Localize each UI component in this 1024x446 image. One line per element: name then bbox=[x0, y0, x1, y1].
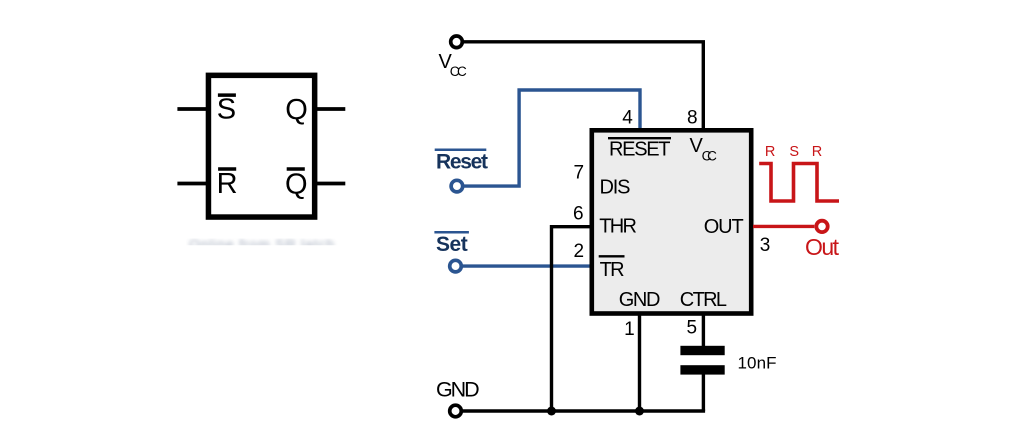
svg-text:THR: THR bbox=[599, 216, 637, 238]
wire Q output stub bbox=[315, 107, 345, 111]
pin label TR-bar bbox=[599, 256, 625, 281]
svg-text:8: 8 bbox=[687, 108, 698, 129]
svg-text:10nF: 10nF bbox=[738, 354, 777, 373]
wire Set to pin 2 (blue) bbox=[462, 264, 593, 267]
svg-text:Out: Out bbox=[805, 234, 840, 260]
pin label R-bar bbox=[217, 168, 238, 200]
wire THR to ground rail bbox=[552, 227, 593, 411]
svg-text:1: 1 bbox=[624, 319, 635, 340]
terminal GND bbox=[450, 405, 462, 417]
net label Vcc bbox=[439, 51, 468, 79]
junction at THR/rail bbox=[547, 407, 556, 416]
svg-text:7: 7 bbox=[574, 163, 585, 184]
pin label Vcc (inside) bbox=[690, 135, 718, 163]
svg-text:CC: CC bbox=[702, 149, 718, 164]
svg-text:OUT: OUT bbox=[704, 216, 744, 238]
wire GND pin to rail bbox=[638, 313, 641, 411]
svg-text:RESET: RESET bbox=[609, 138, 671, 160]
wire Vcc to pin 8 bbox=[463, 42, 703, 131]
svg-text:S: S bbox=[789, 144, 799, 160]
wire CTRL pin to capacitor bbox=[702, 313, 705, 347]
wire ground rail bbox=[462, 409, 706, 412]
svg-text:2: 2 bbox=[574, 241, 585, 262]
svg-text:TR: TR bbox=[600, 259, 625, 281]
IC U1 555 timer body bbox=[592, 130, 751, 313]
terminal Reset bbox=[451, 180, 463, 192]
svg-text:GND: GND bbox=[436, 377, 480, 401]
waveform trace (red) bbox=[759, 164, 839, 202]
wire Reset to pin 4 (blue) bbox=[463, 90, 640, 186]
svg-text:Q: Q bbox=[285, 94, 308, 126]
svg-text:4: 4 bbox=[622, 108, 633, 129]
waveform R S R labels (red) bbox=[765, 144, 822, 160]
capacitor C1 plates bbox=[680, 346, 724, 375]
svg-text:R: R bbox=[217, 168, 238, 200]
wire Qbar output stub bbox=[315, 182, 345, 186]
net label Reset-bar (blue) bbox=[435, 150, 488, 174]
svg-text:Set: Set bbox=[436, 233, 468, 256]
terminal Vcc bbox=[451, 36, 463, 48]
svg-text:3: 3 bbox=[760, 235, 771, 256]
svg-text:5: 5 bbox=[687, 318, 698, 339]
SR latch U2 box bbox=[208, 75, 314, 217]
svg-text:GND: GND bbox=[619, 289, 661, 311]
terminal Out (red) bbox=[816, 221, 827, 232]
pin label RESET-bar bbox=[608, 138, 671, 160]
svg-text:6: 6 bbox=[573, 204, 584, 225]
wire capacitor to rail bbox=[702, 375, 705, 412]
svg-text:R: R bbox=[765, 144, 775, 160]
pin label Q-bar bbox=[285, 169, 308, 201]
watermark caption (blurred clipped text) bbox=[189, 236, 334, 252]
pin label S-bar bbox=[217, 94, 236, 126]
wire R input stub bbox=[177, 182, 208, 186]
wire OUT to Out terminal (red) bbox=[753, 225, 814, 228]
svg-text:Q: Q bbox=[285, 169, 308, 201]
net label Set-bar (blue) bbox=[434, 232, 469, 256]
svg-text:R: R bbox=[812, 144, 822, 160]
svg-text:CTRL: CTRL bbox=[680, 289, 727, 311]
svg-text:CC: CC bbox=[450, 64, 467, 79]
svg-text:DIS: DIS bbox=[600, 176, 631, 198]
wire S input stub bbox=[177, 107, 208, 111]
terminal Set bbox=[450, 260, 462, 272]
svg-text:Reset: Reset bbox=[436, 151, 488, 174]
junction at GND pin/rail bbox=[635, 407, 644, 416]
svg-text:S: S bbox=[217, 94, 236, 126]
